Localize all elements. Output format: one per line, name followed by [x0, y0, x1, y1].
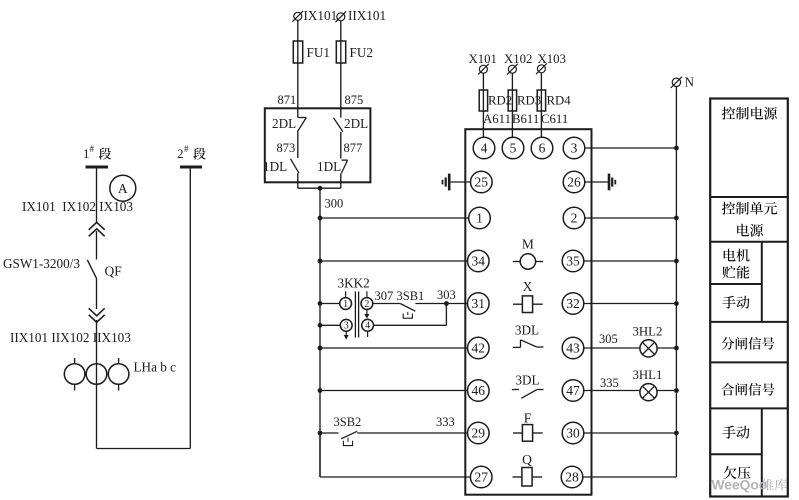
terminal N — [672, 78, 680, 86]
svg-text:47: 47 — [566, 383, 580, 398]
svg-text:35: 35 — [566, 254, 580, 269]
lamp 3HL1 — [640, 384, 657, 401]
svg-text:1DL: 1DL — [317, 159, 341, 174]
svg-text:2: 2 — [364, 299, 369, 310]
table label qianya — [724, 466, 737, 479]
relay coil X — [522, 296, 532, 313]
contact 2DL left — [298, 117, 307, 119]
DL contact box — [265, 108, 371, 182]
table inner vline a — [761, 242, 763, 322]
node rail-kk2b junction — [318, 323, 323, 328]
svg-text:IIX101 IIX102 IIX103: IIX101 IIX102 IIX103 — [10, 330, 131, 345]
busbar 2 — [180, 166, 202, 169]
table divider 2 — [710, 241, 788, 243]
svg-text:32: 32 — [566, 296, 580, 311]
svg-text:2DL: 2DL — [344, 116, 368, 131]
pin 26 — [563, 171, 585, 193]
table divider 4 — [710, 321, 788, 323]
svg-text:A611: A611 — [483, 112, 511, 126]
wire IIX101 to FU2 — [340, 21, 342, 41]
svg-text:30: 30 — [566, 426, 580, 441]
wire RD4 to pin6 — [540, 111, 542, 137]
svg-text:RD3: RD3 — [517, 94, 541, 108]
wire to pin46 — [320, 390, 468, 392]
motor M — [520, 254, 535, 269]
disconnector QF blade — [87, 260, 96, 279]
wire to kk2 contact3 — [320, 324, 340, 326]
table label shoudong 1 — [722, 296, 735, 309]
pin 1 — [469, 207, 491, 229]
table divider 6 — [710, 407, 788, 409]
wire X101-RD2 — [482, 74, 484, 91]
pin 27 — [470, 466, 492, 488]
N rail vertical — [675, 87, 677, 478]
pin 43 — [562, 337, 584, 359]
svg-text:B611: B611 — [512, 112, 539, 126]
node rail-42 junction — [318, 346, 323, 351]
table divider 3 — [710, 283, 762, 285]
node rail-46 junction — [318, 388, 323, 393]
table outer box — [710, 99, 788, 497]
table label kongzhi dianyuan — [722, 107, 735, 120]
pushbutton 3SB2 — [341, 431, 357, 439]
pin 25 — [471, 171, 493, 193]
wire FU1 to box — [297, 63, 299, 118]
svg-text:C611: C611 — [541, 112, 568, 126]
3KK2 contact 1 — [340, 298, 352, 310]
wire 2DL-1DL left — [297, 132, 299, 158]
svg-text:29: 29 — [472, 426, 486, 441]
table label zhuneng — [722, 266, 735, 279]
pin 2 — [563, 207, 585, 229]
wire pin2 to N — [585, 217, 677, 219]
terminal X102 — [508, 65, 516, 73]
fuse RD2 — [479, 90, 487, 111]
contact 1DL left — [291, 159, 300, 173]
svg-text:3KK2: 3KK2 — [338, 276, 370, 291]
wire 3SB1 to node303 — [415, 303, 446, 305]
table label shoudong 2 — [722, 426, 735, 439]
pin 29 — [468, 422, 490, 444]
table divider 1 — [710, 196, 788, 198]
svg-text:3: 3 — [571, 141, 578, 156]
terminal X101 — [479, 65, 487, 73]
terminal IIX101 — [337, 13, 345, 21]
node 300 junction — [318, 186, 323, 191]
svg-text:875: 875 — [345, 93, 364, 107]
wire QF to chevrons2 — [96, 279, 98, 310]
svg-text:QF: QF — [105, 264, 123, 279]
wire X102-RD3 — [511, 74, 513, 91]
wire to 3SB2 — [320, 432, 339, 434]
svg-text:FU2: FU2 — [350, 45, 373, 60]
pin 34 — [468, 250, 490, 272]
3KK2 arrow below 2 — [366, 309, 368, 314]
wire FU2 to box — [340, 63, 342, 118]
node N-3 junction — [674, 146, 679, 151]
svg-text:31: 31 — [472, 296, 486, 311]
wire X103-RD4 — [540, 73, 542, 90]
svg-text:GSW1-3200/3: GSW1-3200/3 — [3, 256, 80, 271]
svg-text:42: 42 — [472, 341, 486, 356]
wire kk2-4 up to node303 — [445, 304, 447, 326]
svg-text:IIX101: IIX101 — [348, 8, 386, 23]
wire 1DL right down — [340, 173, 342, 188]
contact 3DL NC — [513, 346, 521, 348]
main block box — [465, 129, 591, 495]
wire bus2 drop — [189, 167, 191, 449]
pin 4 — [473, 137, 495, 159]
svg-text:1: 1 — [476, 211, 483, 226]
wire lamp 3HL1 to N — [657, 390, 676, 392]
isolator chevrons bottom — [89, 308, 105, 322]
svg-text:6: 6 — [539, 141, 546, 156]
svg-text:M: M — [522, 237, 534, 252]
svg-text:RD4: RD4 — [547, 94, 572, 108]
svg-text:X101: X101 — [469, 52, 497, 66]
lamp 3HL2 — [640, 340, 657, 357]
terminal X103 — [537, 65, 545, 73]
svg-text:4: 4 — [365, 321, 370, 332]
node N-2 junction — [674, 216, 679, 221]
fuse FU2 — [336, 41, 345, 63]
svg-text:300: 300 — [325, 197, 344, 211]
relay coil Q — [522, 468, 532, 487]
table inner vline b — [761, 408, 763, 496]
svg-text:F: F — [524, 411, 532, 426]
terminal IX101 — [294, 12, 302, 20]
contact 3DL NO — [512, 389, 519, 391]
svg-text:2DL: 2DL — [272, 116, 296, 131]
table divider 7 — [710, 453, 762, 455]
wire pin30 to N — [584, 432, 677, 434]
pushbutton 3SB1 — [400, 304, 415, 312]
svg-text:305: 305 — [599, 332, 618, 346]
ammeter A1 — [110, 175, 136, 201]
wire chevron to QF — [96, 231, 98, 260]
svg-text:3DL: 3DL — [515, 323, 539, 338]
3KK2 contact 4 — [362, 319, 374, 331]
svg-text:1DL: 1DL — [263, 159, 287, 174]
3KK2 arrow below 3 — [345, 331, 347, 335]
busbar 1 — [86, 166, 109, 169]
wire lamp 3HL2 to N — [657, 347, 676, 349]
wire 3SB2 to pin29 — [357, 432, 467, 434]
svg-text:IX101 IX102 IX103: IX101 IX102 IX103 — [22, 199, 133, 214]
wire node300 down — [319, 188, 321, 218]
pin 30 — [562, 422, 584, 444]
wire kk2-4 right — [374, 324, 447, 326]
svg-text:3SB1: 3SB1 — [397, 289, 425, 303]
svg-text:873: 873 — [277, 141, 296, 155]
node N-32 junction — [674, 301, 679, 306]
svg-text:Q: Q — [522, 452, 532, 467]
svg-text:335: 335 — [600, 376, 619, 390]
table label dianyuan — [737, 224, 749, 237]
svg-text:34: 34 — [472, 254, 486, 269]
svg-text:N: N — [685, 75, 695, 90]
svg-text:#: # — [184, 144, 189, 154]
node 303 junction — [444, 301, 449, 306]
svg-text:46: 46 — [472, 383, 486, 398]
node N-30 junction — [674, 431, 679, 436]
svg-text:2: 2 — [571, 211, 578, 226]
node rail-kk2a junction — [318, 301, 323, 306]
svg-text:3: 3 — [344, 321, 349, 332]
fuse RD4 — [537, 90, 545, 111]
svg-text:1: 1 — [343, 299, 348, 310]
wire pin35 to N — [584, 260, 677, 262]
svg-text:#: # — [90, 144, 95, 154]
wire pin3 to N — [585, 147, 677, 149]
svg-text:877: 877 — [344, 141, 363, 155]
wire RD3 to pin5 — [511, 111, 513, 137]
wire rail corner to pin27 — [319, 433, 321, 477]
wire kk2-2 to 3SB1 — [373, 303, 400, 305]
fuse RD3 — [508, 90, 516, 111]
wire to kk2 contact1 — [320, 303, 340, 305]
contact 2DL right — [334, 118, 343, 132]
node N-43 junction — [674, 346, 679, 351]
svg-text:WeeQoo: WeeQoo — [712, 478, 768, 493]
wire node303 to pin31 — [446, 303, 467, 305]
node N-35 junction — [674, 259, 679, 264]
wire IX101 to FU1 — [297, 21, 299, 42]
node rail-29 junction — [318, 431, 323, 436]
3KK2 contact 3 — [340, 319, 352, 331]
svg-text:25: 25 — [475, 175, 489, 190]
wire to pin42 — [320, 347, 468, 349]
svg-text:307: 307 — [375, 289, 394, 303]
wire 2DL-1DL right — [340, 132, 342, 159]
contact 1DL right — [342, 159, 348, 161]
table label fenzha xinhao — [721, 337, 734, 350]
ground at pin25 — [449, 181, 470, 183]
pin 32 — [562, 293, 584, 315]
node N-47 junction — [674, 388, 679, 393]
svg-text:A: A — [118, 181, 128, 196]
pin 6 — [531, 137, 553, 159]
svg-text:27: 27 — [474, 470, 488, 485]
svg-text:X102: X102 — [504, 52, 532, 66]
rail 300 vertical — [319, 218, 321, 477]
wire to pin1 — [320, 217, 469, 219]
pin 28 — [561, 466, 583, 488]
wire pin32 to N — [584, 303, 677, 305]
wire 1DL left down — [297, 173, 299, 188]
svg-text:3SB2: 3SB2 — [334, 415, 362, 429]
svg-text:28: 28 — [565, 470, 579, 485]
svg-text:X103: X103 — [538, 52, 566, 66]
pin 42 — [468, 337, 490, 359]
pin 31 — [468, 293, 490, 315]
node rail-34 junction — [318, 259, 323, 264]
wire chevrons2 to CT — [96, 320, 98, 449]
node rail-1 junction — [318, 216, 323, 221]
wire bus1 drop — [96, 167, 98, 223]
wire bottom tie — [97, 448, 191, 450]
CT LHa — [74, 358, 76, 364]
relay coil F — [522, 425, 532, 442]
table divider 5 — [710, 361, 788, 363]
watermark WeeQoo — [712, 478, 787, 493]
svg-text:3DL: 3DL — [515, 373, 539, 388]
svg-text:303: 303 — [437, 288, 456, 302]
svg-text:333: 333 — [436, 415, 455, 429]
3KK2 selector bars — [354, 292, 356, 338]
svg-text:43: 43 — [566, 341, 580, 356]
pin 3 — [563, 137, 585, 159]
svg-text:4: 4 — [481, 141, 488, 156]
pin 47 — [562, 380, 584, 402]
svg-text:X: X — [523, 279, 533, 294]
fuse FU1 — [293, 41, 302, 63]
CT LHb — [86, 364, 107, 385]
svg-text:871: 871 — [278, 93, 297, 107]
svg-text:FU1: FU1 — [307, 45, 330, 60]
svg-text:IX101: IX101 — [304, 8, 338, 23]
ground at pin26 — [585, 181, 609, 183]
3KK2 contact 2 — [361, 298, 373, 310]
wire to pin34 — [320, 260, 468, 262]
wire pin43 to lamp — [584, 347, 640, 349]
wire DL bottom tie — [298, 187, 341, 189]
pin 5 — [502, 137, 524, 159]
wire pin47 to lamp — [584, 390, 640, 392]
svg-text:2: 2 — [177, 146, 184, 161]
wire RD2 to pin4 — [482, 111, 484, 137]
pin 35 — [562, 250, 584, 272]
svg-text:LHa b c: LHa b c — [134, 360, 177, 375]
table label hezha xinhao — [721, 383, 734, 396]
svg-text:3HL2: 3HL2 — [633, 325, 663, 339]
isolator chevrons top — [89, 222, 105, 236]
CT LHc — [118, 358, 120, 364]
pin 46 — [468, 380, 490, 402]
svg-text:5: 5 — [510, 141, 517, 156]
table label kongzhi danyuan — [722, 202, 735, 215]
svg-text:26: 26 — [567, 175, 581, 190]
table label dianji — [724, 249, 736, 262]
svg-text:RD2: RD2 — [488, 94, 512, 108]
svg-text:3HL1: 3HL1 — [633, 368, 663, 382]
wire pin28 to N — [583, 476, 677, 478]
